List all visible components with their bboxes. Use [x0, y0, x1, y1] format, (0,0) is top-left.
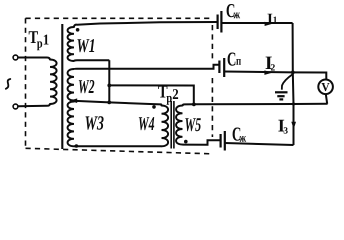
- wire: W5 bottom to capacitor Cx2: [183, 140, 221, 145]
- label I3: [278, 120, 284, 132]
- W3 polarity dot: [75, 144, 79, 148]
- current arrow I3 down: [291, 122, 296, 129]
- dashed screen box: [26, 18, 213, 154]
- capacitor Cx2 bottom plates: [220, 134, 222, 148]
- label Tp1: [29, 31, 38, 43]
- wire: common vertical: [108, 60, 110, 102]
- winding W1: [68, 27, 74, 61]
- Tp1 core: [61, 24, 63, 149]
- arrow into W2 bottom: [70, 98, 78, 103]
- wire: branch to W5 top: [109, 85, 194, 104]
- winding W3: [68, 102, 74, 147]
- capacitor Cp middle plates: [218, 61, 220, 74]
- winding W2: [68, 69, 74, 101]
- AC source terminal bottom: [13, 104, 18, 109]
- junction dot bus low: [292, 102, 295, 105]
- label W2: [79, 80, 95, 93]
- Tp2 core double line: [170, 101, 172, 149]
- W5 polarity dot: [184, 140, 188, 144]
- wire: Cp out: [224, 71, 293, 74]
- wire: W1 top to capacitor Cx1: [74, 22, 217, 27]
- label Cx1: [227, 4, 235, 17]
- junction dot bus mid: [291, 71, 295, 75]
- wire: W1 bottom lead: [74, 59, 109, 62]
- label W5: [185, 118, 201, 131]
- winding W5: [183, 104, 194, 106]
- wire: Cx1 out: [221, 22, 292, 24]
- label W1: [77, 39, 94, 52]
- wire: W3 bottom to W4 bottom: [74, 145, 162, 147]
- wire: Cx2 out: [225, 143, 294, 145]
- capacitor Cx1 top plates: [217, 15, 219, 30]
- wire: W2 top to capacitor Cp: [74, 65, 219, 69]
- current arrow I1: [265, 22, 272, 26]
- label Cp: [228, 53, 236, 66]
- wire: bottom terminal to primary: [18, 105, 47, 108]
- AC source terminal top: [13, 55, 18, 60]
- junction dot branch: [107, 84, 111, 88]
- W4 polarity dot: [152, 105, 156, 109]
- label Cx2: [233, 128, 241, 141]
- wire: top terminal to primary: [18, 57, 47, 59]
- junction dot tap: [107, 101, 111, 105]
- label Tp2: [158, 86, 167, 98]
- wire: W2/W3 tap to W4: [70, 101, 161, 105]
- transformer Tp1 primary winding: [47, 58, 50, 61]
- W1 polarity dot: [76, 28, 80, 32]
- voltmeter V circle: [318, 80, 333, 95]
- label I1: [268, 14, 273, 24]
- wire: return line: [194, 103, 328, 106]
- winding W4: [160, 104, 163, 106]
- ~ AC symbol: [6, 79, 11, 89]
- wire: bus to voltmeter top: [293, 72, 327, 79]
- ground: [282, 75, 293, 90]
- right bus vertical: [292, 23, 295, 145]
- junction dot W5 top: [192, 102, 196, 106]
- current arrow I2: [264, 70, 272, 75]
- label I2: [266, 57, 272, 69]
- label W4: [139, 117, 154, 130]
- label W3: [86, 116, 104, 130]
- wire: voltmeter bottom: [326, 94, 327, 104]
